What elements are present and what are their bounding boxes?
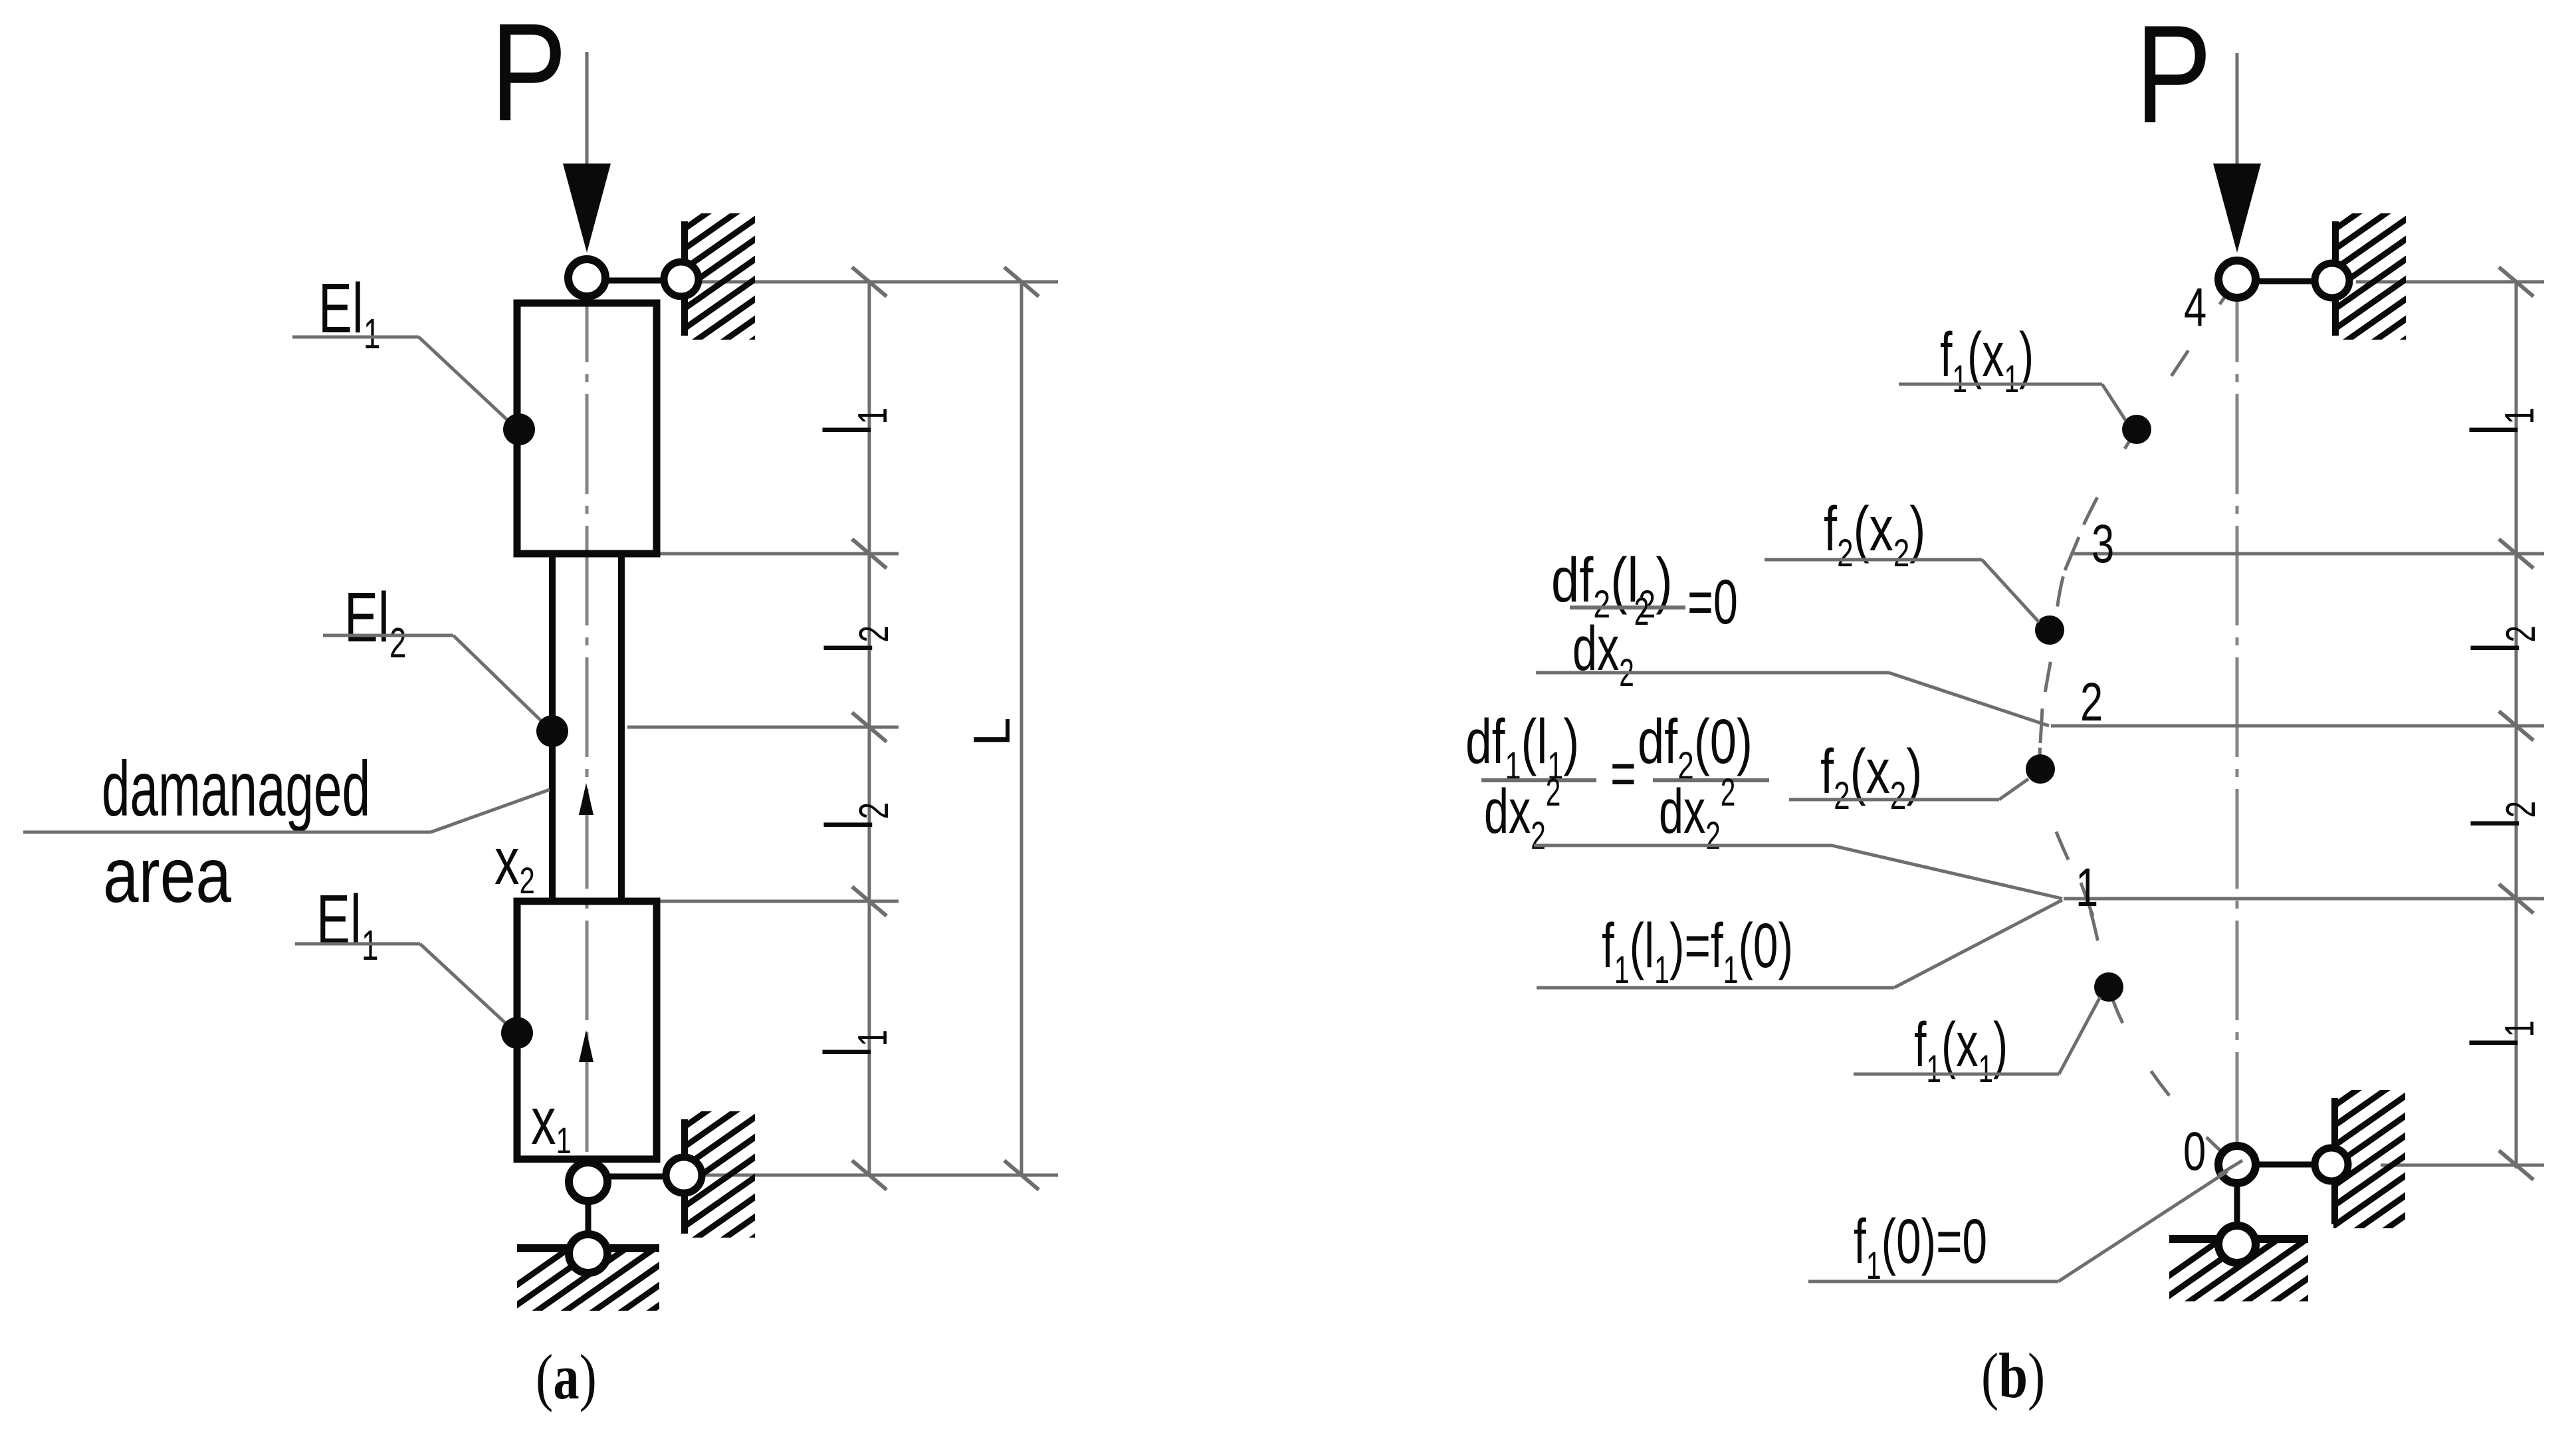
extension line bottom (a) [704, 1174, 1058, 1177]
extension line l1/l2 (a) [659, 552, 899, 556]
caption (a) [536, 1342, 597, 1412]
extension line l2/l1 (a) [659, 900, 899, 903]
formula df2(l2)/dx2^2=0 (b) [1551, 545, 1673, 626]
extension line node0 (b) [2381, 1164, 2544, 1167]
svg-text:0: 0 [2183, 1121, 2206, 1182]
leader formula df1 to node1 (b) [1534, 844, 1832, 847]
dim label l2 upper (a) [811, 625, 897, 653]
svg-text:area: area [103, 831, 231, 919]
node label 4 (b) [2184, 276, 2206, 338]
dimension line inner (a) [868, 282, 871, 1175]
svg-text:4: 4 [2184, 276, 2206, 338]
bottom wall pin circle (a) [666, 1157, 702, 1193]
label x1 (a) [531, 1083, 572, 1161]
svg-text:=: = [1610, 738, 1636, 808]
node label 2 (b) [2080, 671, 2103, 732]
svg-text:(a): (a) [536, 1342, 597, 1412]
node dot El1 upper (a) [503, 413, 535, 445]
top support link (b) [2258, 278, 2315, 284]
bottom support link (a) [609, 1174, 666, 1180]
bottom wall line (a) [681, 1119, 688, 1234]
leader f1(x1) top (b) [1899, 383, 2102, 386]
label f2(x2) lower (b) [1820, 736, 1922, 817]
extension line node3 (b) [2074, 552, 2544, 556]
arrow P (a) [563, 164, 611, 253]
svg-text:=0: =0 [1687, 567, 1738, 637]
leader overlay into node0 circle (b) [2218, 1161, 2242, 1175]
top wall line (b) [2332, 221, 2339, 336]
svg-text:P: P [490, 0, 567, 150]
dim label l2 lower (b) [2458, 801, 2544, 829]
label El1 lower (a) [316, 880, 378, 969]
bottom vertical link (a) [586, 1196, 591, 1236]
dimension line (b) [2515, 282, 2518, 1168]
dim label l2 upper (b) [2458, 625, 2544, 653]
top wall line (a) [681, 221, 688, 336]
load label P (b) [2135, 0, 2212, 152]
label f1(x1) lower (b) [1914, 1010, 2008, 1090]
node label 0 (b) [2183, 1121, 2206, 1182]
top support link (a) [606, 278, 665, 284]
node label 3 (b) [2092, 513, 2114, 574]
centerline column (a) [586, 263, 589, 1267]
label f2(x2) top (b) [1824, 493, 1925, 574]
deflection curve dashed (b) [2040, 279, 2237, 1165]
extension line node4 (b) [2356, 280, 2544, 284]
extension line top (a) [693, 280, 1058, 284]
node dot El1 lower (a) [501, 1017, 533, 1049]
leader damanaged area (a) [23, 831, 431, 834]
svg-text:1: 1 [2076, 857, 2098, 918]
bottom pin circle (a) [569, 1162, 607, 1201]
centerline column (b) [2236, 263, 2239, 1263]
dimension line outer L (a) [1020, 282, 1023, 1175]
dim label l1 top (a) [810, 407, 896, 435]
ground pin circle (b) [2218, 1226, 2256, 1263]
mode dot f1x1 upper (b) [2122, 415, 2151, 444]
svg-text:damanaged: damanaged [102, 746, 370, 832]
caption (b) [1981, 1341, 2045, 1411]
x2 axis arrowhead (a) [579, 783, 593, 815]
ground line (b) [2169, 1235, 2308, 1243]
leader f1(x1) lower (b) [1854, 1073, 2059, 1076]
curve dash at node3 (b) [2065, 537, 2079, 570]
bottom wall pin circle (b) [2315, 1148, 2348, 1181]
dim label l1 bottom (b) [2457, 1020, 2543, 1048]
leader f1(0)=0 to node0 (b) [1808, 1280, 2058, 1283]
label El1 upper (a) [318, 269, 380, 358]
load label P (a) [490, 0, 567, 150]
force line P (a) [586, 52, 589, 169]
leader El1 upper (a) [292, 336, 419, 339]
dim ticks (b) [2499, 267, 2533, 296]
dim label L (a) [962, 717, 1021, 746]
dim label l2 lower (a) [811, 802, 897, 830]
x1 axis arrowhead (a) [579, 1030, 593, 1062]
node label 1 (b) [2076, 857, 2098, 918]
top pin circle (a) [568, 259, 605, 296]
column upper segment El1 (a) [517, 303, 657, 554]
bottom wall line (b) [2331, 1098, 2338, 1224]
label damanaged area (a) [102, 746, 370, 832]
dim label l1 top (b) [2457, 407, 2543, 435]
arrow P (b) [2213, 164, 2261, 253]
label f1(0)=0 (b) [1854, 1206, 1987, 1287]
leader El2 (a) [323, 634, 453, 637]
label f1(l1)=f1(0) (b) [1602, 911, 1793, 992]
svg-text:f1(l1)=f1(0): f1(l1)=f1(0) [1602, 911, 1793, 992]
ground line (a) [517, 1244, 659, 1252]
extension line node1 (b) [2064, 897, 2544, 901]
mode dot f2x2 upper (b) [2035, 615, 2064, 645]
top pin circle node4 (b) [2218, 261, 2256, 298]
extension line node2 (b) [2051, 724, 2544, 728]
formula df1(l1)/dx2^2 = df2(0)/dx2^2 (b) [1465, 706, 1579, 787]
leader formula df2 to node2 (b) [1536, 671, 1889, 675]
mode dot f2x2 lower (b) [2026, 754, 2055, 784]
column lower segment El1 (a) [517, 901, 657, 1159]
label f1(x1) top (b) [1940, 320, 2034, 400]
svg-text:(b): (b) [1981, 1341, 2045, 1411]
top wall pin circle (a) [664, 262, 698, 296]
bottom vertical link (b) [2234, 1180, 2240, 1226]
curve dash at node2 (b) [2040, 709, 2042, 743]
top wall pin circle (b) [2315, 263, 2349, 298]
leader f2(x2) top (b) [1765, 558, 1982, 562]
extension line mid l2/l2 (a) [627, 726, 899, 729]
svg-text:L: L [962, 717, 1021, 746]
label x2 (a) [494, 824, 535, 901]
mode dot f1x1 lower (b) [2094, 972, 2123, 1002]
svg-text:P: P [2135, 0, 2212, 152]
bottom pin circle node0 (b) [2218, 1146, 2256, 1183]
leader El1 lower (a) [295, 942, 420, 946]
dim ticks (a) [852, 267, 887, 296]
dim label l1 bottom (a) [810, 1030, 896, 1057]
leader f2(x2) lower (b) [1789, 798, 1999, 802]
label El2 (a) [344, 578, 406, 667]
ground pin circle (a) [569, 1234, 607, 1273]
svg-text:3: 3 [2092, 513, 2114, 574]
column damaged segment El2 (a) [552, 554, 621, 901]
svg-text:2: 2 [2080, 671, 2103, 732]
leader f1(l1)=f1(0) to node1 (b) [1537, 986, 1894, 990]
curve dash at node1 (b) [2081, 883, 2093, 916]
node dot El2 (a) [536, 715, 568, 747]
bottom support link (b) [2257, 1162, 2314, 1168]
force line P (b) [2236, 53, 2239, 169]
